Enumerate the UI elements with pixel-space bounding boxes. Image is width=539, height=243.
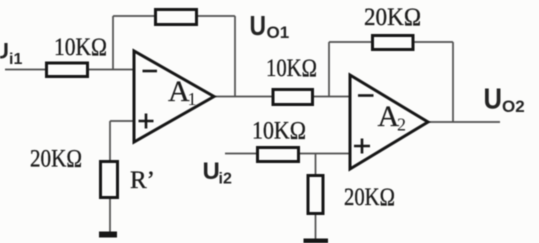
svg-text:O1: O1 [267,23,290,42]
svg-text:2: 2 [397,115,406,135]
svg-text:20KΩ: 20KΩ [30,146,82,173]
svg-text:10KΩ: 10KΩ [252,118,306,145]
svg-text:10KΩ: 10KΩ [266,55,317,82]
svg-text:O2: O2 [502,97,525,116]
svg-text:20KΩ: 20KΩ [364,4,421,31]
svg-text:i2: i2 [219,171,232,188]
svg-text:i1: i1 [9,51,22,68]
svg-text:U: U [484,84,503,116]
svg-text:R’: R’ [130,167,155,194]
svg-text:U: U [250,10,267,41]
svg-text:1: 1 [188,89,197,109]
svg-text:U: U [0,39,9,64]
svg-text:10KΩ: 10KΩ [54,34,107,61]
svg-text:20KΩ: 20KΩ [344,184,395,211]
svg-text:U: U [203,158,220,185]
